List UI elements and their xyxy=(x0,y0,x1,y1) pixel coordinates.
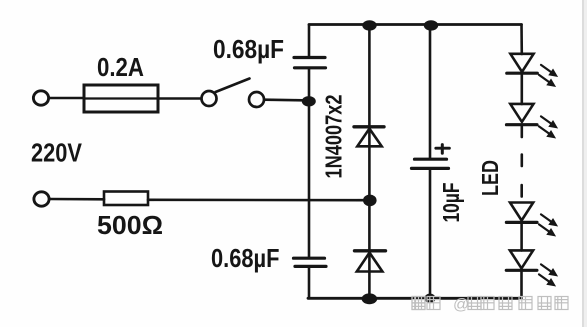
svg-text:1N4007x2: 1N4007x2 xyxy=(321,95,347,179)
svg-text:LED: LED xyxy=(477,160,503,196)
svg-text:500Ω: 500Ω xyxy=(97,210,163,240)
svg-text:@: @ xyxy=(453,297,469,314)
svg-text:0.2A: 0.2A xyxy=(97,52,144,82)
svg-text:10µF: 10µF xyxy=(438,183,464,223)
svg-text:220V: 220V xyxy=(31,138,83,168)
svg-text:0.68µF: 0.68µF xyxy=(213,34,284,64)
svg-text:0.68µF: 0.68µF xyxy=(211,243,280,273)
